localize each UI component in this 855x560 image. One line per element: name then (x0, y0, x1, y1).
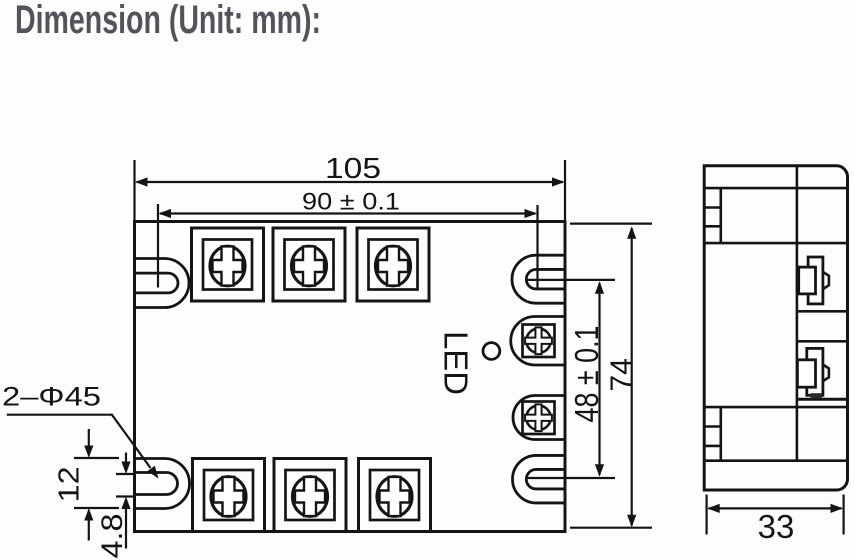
side view lower mounting ear tabs (704, 407, 721, 461)
side view terminal clamp 1 (799, 257, 829, 304)
mounting slot bottom-right (513, 455, 565, 503)
side view upper flange line (704, 242, 847, 245)
dimension 4.8 (slot width) (96, 453, 135, 559)
svg-text:74: 74 (605, 358, 638, 391)
side view lower flange line (704, 406, 847, 409)
svg-text:LED: LED (438, 331, 475, 395)
dimension 90 ± 0.1 (mounting hole spacing) (158, 189, 538, 291)
dimension 74 (body height) (570, 224, 652, 528)
LED indicator circle (483, 343, 500, 360)
mounting slot bottom-left (135, 459, 190, 509)
label 2-Φ45 with leader arrow (2, 382, 159, 479)
side view bottom section line (704, 459, 847, 462)
svg-text:90 ± 0.1: 90 ± 0.1 (302, 189, 400, 216)
svg-text:Dimension (Unit: mm):: Dimension (Unit: mm): (15, 0, 321, 42)
terminal block B1 (bottom row) with screw (193, 459, 265, 532)
dimension 105 (overall width) (135, 153, 566, 222)
side view section line above clamp 2 (797, 340, 848, 343)
svg-text:48 ± 0.1: 48 ± 0.1 (568, 326, 605, 423)
svg-text:12: 12 (54, 466, 86, 502)
svg-text:33: 33 (758, 508, 795, 545)
mounting slot top-right (512, 255, 565, 303)
side view terminal clamp 2 (797, 348, 829, 395)
terminal block B3 (bottom row) with screw (359, 459, 431, 532)
control terminal A1 (right, upper) with screw (511, 317, 565, 366)
side view section line below clamp 2 (797, 398, 848, 401)
side view section line below clamp 1 (797, 310, 848, 313)
terminal block T3 (top row) with screw (357, 228, 429, 301)
svg-text:2–Φ45: 2–Φ45 (2, 382, 101, 412)
dimension 12 (slot boss height) (54, 429, 120, 541)
control terminal A2 (right, lower) with screw (513, 396, 565, 440)
side view clamp 2 base shadow (811, 393, 823, 399)
svg-text:105: 105 (325, 153, 381, 185)
svg-text:4.8: 4.8 (96, 514, 129, 559)
label LED (rotated) (438, 331, 475, 395)
terminal block T2 (top row) with screw (273, 228, 345, 301)
side view upper mounting ear tabs (704, 188, 721, 243)
dimension 48 ± 0.1 (slot spacing) (527, 280, 615, 478)
terminal block T1 (top row) with screw (192, 228, 264, 301)
side view body outline (704, 166, 847, 490)
front view body outline (135, 222, 566, 532)
dimension 33 (body depth) (707, 495, 844, 546)
mounting slot top-left (135, 259, 189, 308)
side view main divider line (796, 166, 799, 461)
side view top section line (704, 187, 847, 190)
terminal block B2 (bottom row) with screw (274, 459, 346, 532)
